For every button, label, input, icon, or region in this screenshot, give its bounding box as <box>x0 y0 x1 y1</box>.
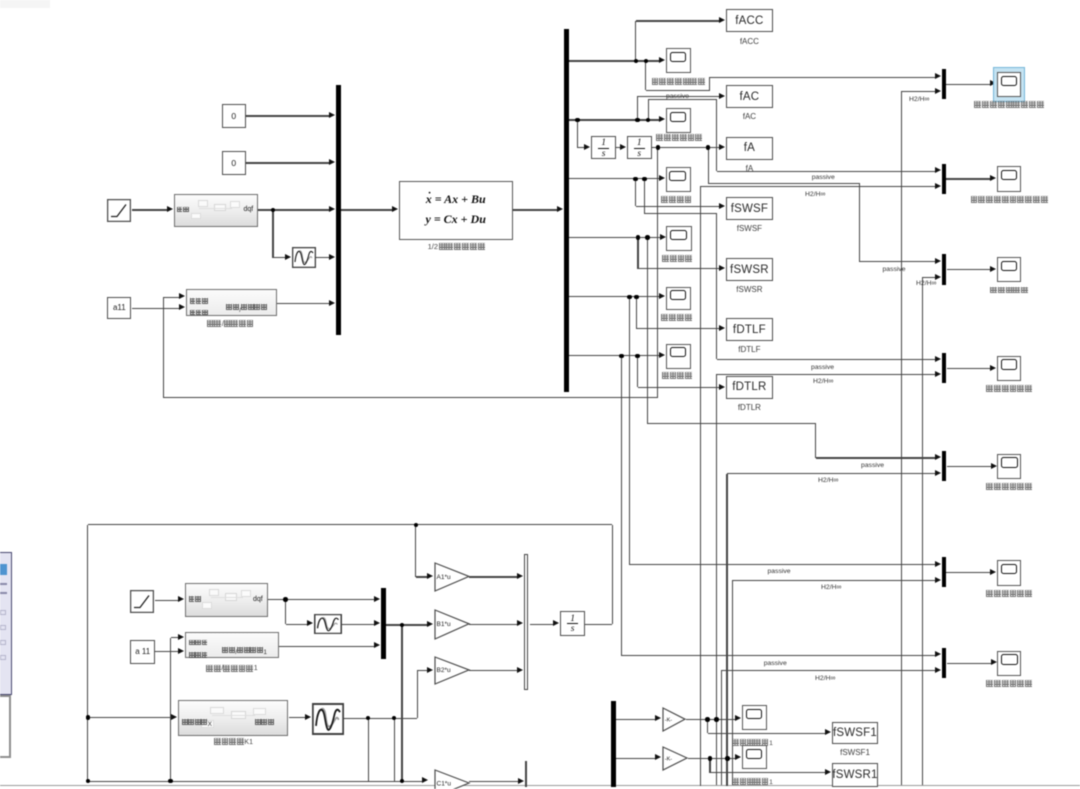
svg-text:A1*u: A1*u <box>436 574 450 581</box>
svg-text:B1*u: B1*u <box>436 621 450 628</box>
svg-text:-K-: -K- <box>665 717 673 723</box>
svg-text:C1*u: C1*u <box>436 780 451 787</box>
svg-text:B2*u: B2*u <box>436 668 450 675</box>
svg-text:-K-: -K- <box>665 756 673 762</box>
